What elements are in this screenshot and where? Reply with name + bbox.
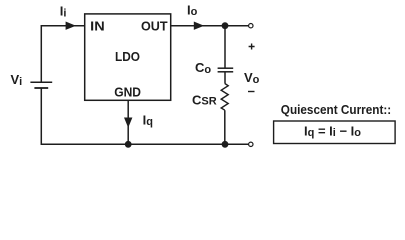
wire: OUT pin to output terminal: [171, 25, 249, 27]
arrow: input current direction: [66, 22, 76, 30]
label - (output polarity): [248, 91, 255, 93]
svg-text:IN: IN: [90, 18, 105, 33]
equation box: [274, 121, 396, 144]
battery V1 (Vi source) long plate: [30, 81, 52, 83]
terminal: output + (open circle): [249, 24, 253, 28]
terminal: output - (open circle): [249, 142, 253, 146]
op-amp U1 : LDO regulator box: [85, 14, 171, 100]
svg-text:LDO: LDO: [115, 49, 140, 64]
capacitor Co bottom plate: [218, 71, 234, 73]
node: load branch junction dot: [222, 141, 229, 148]
node: GND junction dot: [125, 141, 132, 148]
wire: resistor to bottom rail: [224, 110, 226, 144]
label + (output polarity): [249, 44, 255, 50]
svg-text:CSR: CSR: [192, 93, 217, 108]
svg-text:Quiescent Current::: Quiescent Current::: [281, 102, 391, 117]
svg-text:GND: GND: [114, 84, 141, 99]
arrow: output current direction: [194, 22, 204, 30]
wire: bottom rail: [41, 88, 248, 144]
battery V1 short plate: [34, 87, 48, 89]
capacitor Co top plate: [218, 67, 234, 69]
svg-text:OUT: OUT: [141, 18, 168, 33]
node: output junction dot: [222, 22, 229, 29]
arrow: quiescent current direction: [124, 118, 132, 128]
wire: capacitor to resistor: [224, 72, 226, 84]
resistor CSR zigzag: [221, 84, 228, 111]
wire: junction down to capacitor: [224, 26, 226, 68]
wire: GND pin down to rail: [127, 100, 129, 144]
wire: battery top to IN pin: [41, 26, 84, 82]
